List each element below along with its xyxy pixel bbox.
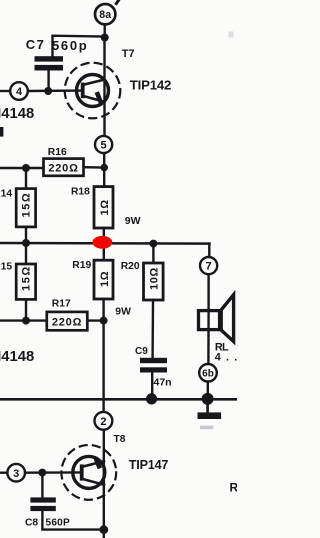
svg-text:TIP142: TIP142 (130, 77, 171, 92)
wire node5 to R18 (103, 153, 105, 187)
svg-text:15Ω: 15Ω (21, 192, 33, 218)
svg-text:8a: 8a (99, 9, 111, 21)
wire R14 top lead (25, 168, 27, 189)
wire R17 right lead (87, 319, 103, 321)
svg-text:10Ω: 10Ω (148, 267, 160, 290)
resistor R17 (47, 312, 88, 330)
node output red dot (92, 236, 112, 249)
junction dot C9/rail (146, 393, 157, 404)
svg-text:R20: R20 (121, 261, 140, 272)
svg-text:TIP147: TIP147 (129, 458, 169, 472)
svg-text:560P: 560P (46, 517, 70, 528)
wire C8 top lead (41, 473, 43, 498)
svg-text:6b: 6b (202, 369, 214, 380)
svg-text:560p: 560p (52, 38, 88, 53)
wire junction to C7 top (53, 36, 105, 57)
node 8a (95, 4, 115, 24)
junction dot T8 emitter (99, 525, 108, 534)
svg-text:C9: C9 (135, 346, 148, 357)
wire 8a to junction (103, 24, 105, 37)
svg-text:T7: T7 (122, 48, 135, 60)
wire T7 collector/emitter vertical (103, 38, 105, 137)
svg-text:T8: T8 (114, 434, 126, 445)
svg-text:4 . . .: 4 . . . (215, 351, 237, 363)
junction dot R17 right (100, 317, 108, 325)
transistor T7 (65, 63, 121, 119)
resistor R15 (16, 264, 35, 299)
wire R15 bottom lead (25, 299, 27, 320)
capacitor C8 (30, 497, 55, 511)
wire R19 bottom to node 2 (102, 299, 104, 412)
resistor R20 (144, 263, 164, 300)
resistor R14 (16, 189, 35, 227)
svg-text:9W: 9W (125, 215, 141, 227)
svg-text:R18: R18 (71, 186, 90, 197)
resistor R18 (94, 187, 113, 228)
wire node 4 to T7 base (28, 89, 81, 92)
svg-text:C7: C7 (26, 37, 45, 52)
wire node 2 to T8 (103, 430, 105, 530)
ground rail bottom (0, 398, 237, 401)
node 3 (7, 464, 25, 482)
node 5 (95, 136, 112, 153)
svg-text:R16: R16 (48, 147, 67, 158)
junction dot below 8a (101, 34, 109, 42)
svg-text:2: 2 (100, 416, 106, 428)
wire rail corner to node 7 (208, 244, 210, 257)
svg-text:N4148: N4148 (0, 349, 34, 365)
capacitor C7 (35, 56, 64, 70)
clipped component at left edge (0, 127, 3, 137)
svg-text:15Ω: 15Ω (21, 265, 33, 291)
svg-text:220Ω: 220Ω (48, 162, 78, 174)
svg-text:9W: 9W (115, 307, 131, 318)
resistor R16 (44, 159, 84, 176)
wire to bottom edge (103, 530, 105, 538)
svg-text:220Ω: 220Ω (52, 317, 82, 329)
svg-text:1Ω: 1Ω (99, 271, 111, 287)
svg-text:R15: R15 (0, 262, 12, 273)
svg-text:N4148: N4148 (0, 106, 34, 122)
svg-text:1Ω: 1Ω (99, 199, 111, 215)
junction dot R14 top (22, 164, 30, 172)
svg-text:3: 3 (13, 468, 19, 480)
wire node 7 to speaker (207, 274, 209, 311)
junction dot C8 top (38, 469, 46, 477)
wire C9 bottom to ground rail (151, 373, 153, 399)
junction dot R16 right lead (100, 164, 108, 172)
node 2 (95, 412, 113, 430)
wire R14 bottom lead (25, 227, 27, 243)
wire R20 to C9 (151, 300, 154, 358)
junction dot C7/base wire (44, 87, 52, 95)
wire R18 bottom to rail (103, 228, 105, 260)
svg-text:C8: C8 (25, 517, 38, 528)
wire R15 top lead (25, 243, 27, 264)
wire C8 bottom to emitter line (42, 511, 103, 529)
transistor T8 (61, 445, 116, 500)
speaker RL (199, 295, 234, 342)
wire left rail to R16 (0, 167, 44, 169)
svg-text:R14: R14 (0, 188, 12, 199)
wire left to R17 (0, 319, 47, 321)
junction dot R20 top (149, 240, 157, 248)
svg-text:R19: R19 (72, 260, 91, 271)
node 6b (199, 364, 217, 382)
wire R16 right lead (84, 166, 105, 169)
wire top stub mark (116, 0, 118, 3)
wire node 3 to T8 base (25, 471, 80, 474)
svg-text:4: 4 (16, 86, 23, 98)
node 4 (10, 82, 28, 100)
svg-text:47n: 47n (154, 377, 172, 389)
node 7 (200, 257, 217, 274)
wire through speaker to 6b (207, 311, 210, 364)
svg-text:R17: R17 (52, 299, 71, 310)
wire R20 top lead (152, 244, 154, 263)
wire 6b to ground rail (207, 382, 209, 399)
faint mark right (229, 32, 234, 38)
wire left edge to node 4 (0, 90, 10, 92)
ground symbol (198, 399, 222, 429)
junction dot R15 top (22, 239, 30, 247)
junction dot 6b/rail (202, 393, 214, 405)
svg-text:7: 7 (206, 261, 212, 273)
svg-text:R: R (230, 480, 238, 494)
wire left edge to node 3 (0, 472, 7, 474)
wire C7 bottom to node4 rail (47, 71, 49, 92)
mid rail wire (0, 242, 210, 245)
svg-text:5: 5 (101, 140, 107, 152)
junction dot R15/R17 (22, 317, 30, 325)
capacitor C9 (140, 358, 167, 373)
resistor R19 (94, 260, 113, 299)
